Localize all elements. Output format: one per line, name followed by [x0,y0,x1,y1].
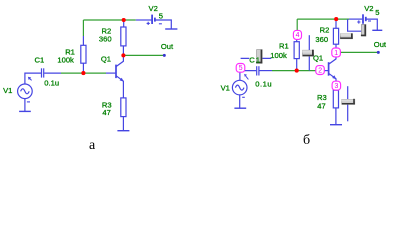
svg-text:б: б [303,133,310,148]
svg-text:V1: V1 [221,84,230,93]
svg-text:C1: C1 [35,56,45,65]
svg-text:5: 5 [159,11,163,20]
probe B4 wire lower [347,104,349,121]
minus mark V1 [27,101,30,103]
svg-text:2: 2 [318,67,322,74]
probe brick B2 [340,33,352,39]
battery V2 [136,15,172,29]
wire base [61,72,106,74]
resistor R2 [121,20,126,55]
resistor R3 [333,90,338,125]
probe B2 wire bend [348,19,362,31]
junction dot collector node [121,53,125,57]
svg-text:R1: R1 [279,42,289,51]
junction dot top-R2 [122,18,126,22]
minus mark V2 [368,20,371,22]
source V1 arrow [28,77,31,80]
svg-text:360: 360 [315,35,328,44]
junction dot base-R1 [81,71,85,75]
svg-text:Out: Out [161,42,174,51]
svg-text:5: 5 [239,65,243,72]
svg-text:100k: 100k [57,56,74,65]
ground V1 [19,110,31,112]
svg-text:5: 5 [375,8,379,17]
junction dot top-R2 [334,17,338,21]
svg-text:3: 3 [335,83,339,90]
node bubble 2 [316,66,325,75]
source V1 [18,78,33,111]
wire base lead [106,72,116,74]
svg-text:47: 47 [102,108,110,117]
transistor Q1 [116,55,123,98]
ground V2 [165,28,177,30]
source V1 [232,76,248,108]
minus mark V2 [159,23,162,25]
svg-text:R2: R2 [320,26,330,35]
svg-text:V2: V2 [149,4,158,13]
node bubble 5 [236,64,245,73]
svg-text:а: а [89,138,96,153]
wire out [123,54,164,56]
resistor R1 [294,39,299,71]
source V1 arrow [244,74,247,77]
svg-text:0.1u: 0.1u [255,79,272,88]
svg-text:Q1: Q1 [101,55,111,64]
junction dot base-R1 [295,69,299,73]
svg-text:360: 360 [99,34,112,43]
probe brick B3 [361,25,366,37]
node bubble 1 [332,48,341,57]
terminal Out [163,54,166,57]
minus mark V1 [242,96,245,98]
svg-text:V1: V1 [3,86,12,95]
resistor R1 [81,36,86,73]
wire top rail [297,18,349,20]
probe brick B5 [303,50,314,57]
resistor R2 [333,19,338,52]
emitter arrow Q1 [332,75,336,79]
transistor Q1 [329,52,336,90]
node bubble 4 [293,30,301,39]
wire out [336,51,378,53]
plus mark V2 [147,22,150,25]
node bubble 3 [332,81,341,90]
probe brick B1 [256,50,262,64]
probe B5 wire [308,35,310,70]
svg-text:V2: V2 [364,4,373,13]
ground R3 [117,130,129,132]
svg-text:Out: Out [374,40,387,49]
svg-text:100k: 100k [270,51,287,60]
wire base lead [323,70,329,72]
battery V2 [349,14,377,30]
wire R1 top [82,20,84,36]
wire base [272,70,323,72]
capacitor C1 [240,66,272,80]
svg-text:1: 1 [334,50,338,57]
terminal Out [377,51,380,54]
ground R3 [330,124,342,126]
emitter arrow Q1 [120,78,124,82]
ground V2 [372,29,382,31]
plus mark V2 [357,20,360,23]
capacitor C1 [25,68,61,84]
wire top rail [83,19,135,21]
svg-text:4: 4 [296,32,300,39]
svg-text:Q1: Q1 [313,54,323,63]
probe B1 lead [241,57,272,59]
probe B4 wire upper [347,86,349,99]
svg-text:47: 47 [317,101,325,110]
svg-text:0.1u: 0.1u [44,78,59,87]
wire R1 top [296,19,298,39]
ground V1 [234,107,246,109]
resistor R3 [121,98,126,131]
svg-text:C1: C1 [249,55,261,64]
probe brick B4 [342,99,355,105]
